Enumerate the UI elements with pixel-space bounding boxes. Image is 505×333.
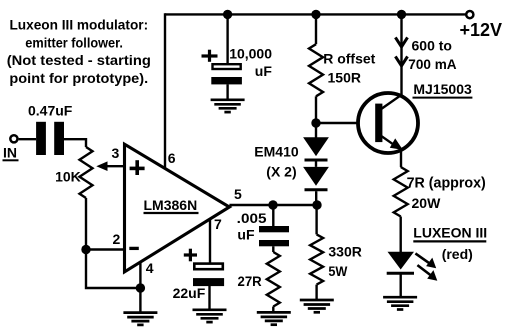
node: junction top rail / R offset <box>311 10 320 19</box>
resistor R4 7R 20W <box>394 167 408 217</box>
resistor R3 330R 5W <box>315 205 317 234</box>
svg-text:Luxeon III modulator:: Luxeon III modulator: <box>9 17 148 33</box>
collector wire with current arrows <box>400 14 402 95</box>
op-amp U1 LM386N <box>125 144 230 272</box>
Q1 collector lead <box>381 94 403 109</box>
node pin5 / C3 <box>268 200 277 209</box>
LED emission arrow 1 <box>415 253 430 264</box>
node pin4/ground <box>136 283 145 292</box>
IN underline <box>3 159 19 161</box>
node base tee <box>311 118 320 127</box>
svg-text:150R: 150R <box>328 69 361 85</box>
svg-text:10K: 10K <box>55 169 81 185</box>
wire pin 4 <box>139 263 141 289</box>
wire: top +12V rail <box>165 13 466 15</box>
ground: C2 <box>226 84 228 99</box>
wire 7R to LED <box>400 217 402 253</box>
Q1 base bar <box>375 104 382 143</box>
wire D2 to pin5 rail <box>315 191 317 205</box>
svg-text:(X 2): (X 2) <box>266 164 296 180</box>
Q1 emitter lead <box>381 136 399 148</box>
LED emission arrow 2 <box>417 265 432 277</box>
capacitor C1 0.47uF <box>36 122 46 155</box>
svg-text:7: 7 <box>214 216 222 232</box>
terminal IN <box>10 135 17 142</box>
wire emitter to 7R <box>400 151 402 167</box>
node pot/pin2 <box>81 245 90 254</box>
svg-text:4: 4 <box>146 260 154 276</box>
resistor R offset 150R <box>315 14 317 44</box>
wire pot bottom to pin2 node <box>85 198 87 250</box>
wire pin 7 <box>209 219 211 263</box>
ground: op-amp <box>139 288 141 313</box>
svg-text:uF: uF <box>255 63 273 79</box>
op-amp minus input symbol <box>129 247 139 250</box>
current chevron 2 <box>395 56 407 65</box>
node: junction top rail / C2 <box>223 10 232 19</box>
svg-text:uF: uF <box>237 227 255 243</box>
LED D3 LUXEON III <box>388 252 415 270</box>
terminal +12V <box>466 11 473 18</box>
Q1 circle <box>358 93 418 153</box>
wire: pin 6 riser <box>164 13 166 169</box>
svg-text:LM386N: LM386N <box>144 197 198 213</box>
ground: 27R <box>272 307 274 313</box>
ground: 330R <box>315 285 317 300</box>
capacitor C2 10,000uF <box>226 14 228 63</box>
wire R offset to base node <box>315 96 317 137</box>
svg-text:MJ15003: MJ15003 <box>413 81 472 97</box>
svg-text:point for prototype).: point for prototype). <box>9 70 148 86</box>
svg-text:600 to: 600 to <box>412 37 452 53</box>
svg-text:700 mA: 700 mA <box>408 56 456 72</box>
svg-text:(Not tested - starting: (Not tested - starting <box>7 52 151 68</box>
wire pin 5 <box>229 204 317 206</box>
svg-text:22uF: 22uF <box>173 285 206 301</box>
diode D2 EM410 <box>315 162 317 167</box>
capacitor C3 .005uF <box>272 205 274 227</box>
capacitor C4 22uF <box>194 264 223 270</box>
op-amp plus input symbol <box>130 167 145 171</box>
svg-text:EM410: EM410 <box>254 143 299 159</box>
svg-text:IN: IN <box>3 144 17 160</box>
resistor R2 27R <box>272 246 274 252</box>
svg-text:+12V: +12V <box>460 20 503 40</box>
node pin5 / R330 <box>312 200 321 209</box>
svg-text:LUXEON III: LUXEON III <box>413 225 487 241</box>
svg-text:2: 2 <box>113 231 121 247</box>
svg-text:7R (approx): 7R (approx) <box>407 175 486 192</box>
svg-text:.005: .005 <box>237 210 267 226</box>
svg-text:R offset: R offset <box>323 51 375 67</box>
node: junction top rail / collector <box>397 10 406 19</box>
diode D1 EM410 <box>303 137 329 156</box>
wire down to ground run <box>86 250 140 289</box>
ground: LED <box>400 273 402 297</box>
svg-text:0.47uF: 0.47uF <box>28 103 73 119</box>
current chevron 1 <box>395 37 407 46</box>
wire C1 to pot top <box>64 139 86 147</box>
wire base <box>316 122 376 124</box>
ground: C4 <box>208 286 210 310</box>
svg-text:27R: 27R <box>238 273 262 289</box>
wire IN to C1 <box>19 138 36 140</box>
svg-text:(red): (red) <box>442 246 473 262</box>
svg-text:6: 6 <box>168 150 176 166</box>
svg-text:emitter follower.: emitter follower. <box>25 34 123 50</box>
C2 plus sign <box>202 54 218 57</box>
C4 plus sign <box>184 253 197 256</box>
svg-text:5: 5 <box>234 186 242 202</box>
svg-text:3: 3 <box>112 145 120 161</box>
svg-text:10,000: 10,000 <box>229 46 272 62</box>
svg-text:5W: 5W <box>328 263 348 279</box>
pot wiper arrow / pin 3 wire <box>107 165 125 167</box>
potentiometer VR1 10K <box>80 147 93 198</box>
title note text <box>7 17 151 86</box>
svg-text:20W: 20W <box>412 195 442 211</box>
wire pin 2 <box>86 248 125 250</box>
svg-text:330R: 330R <box>328 243 361 259</box>
